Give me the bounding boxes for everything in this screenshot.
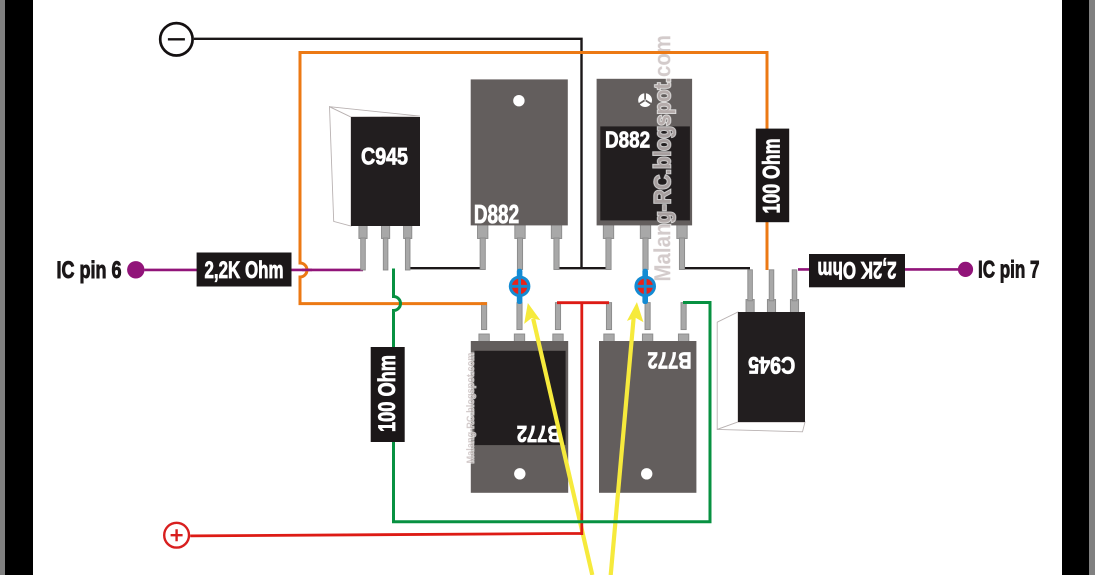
svg-text:C945: C945 (748, 351, 795, 377)
svg-text:2,2K Ohm: 2,2K Ohm (205, 257, 284, 284)
svg-text:Malang-RC.blogspot.com: Malang-RC.blogspot.com (649, 35, 675, 282)
svg-text:IC pin 7: IC pin 7 (978, 256, 1040, 283)
svg-text:IC pin 6: IC pin 6 (57, 257, 122, 284)
svg-text:Malang-RC.blogspot.com: Malang-RC.blogspot.com (465, 353, 477, 464)
svg-text:B772: B772 (648, 347, 692, 373)
svg-text:D882: D882 (474, 201, 519, 229)
svg-text:C945: C945 (361, 144, 408, 170)
svg-text:100 Ohm: 100 Ohm (759, 139, 786, 214)
svg-text:2,2K Ohm: 2,2K Ohm (818, 256, 897, 283)
svg-text:D882: D882 (605, 127, 650, 153)
svg-text:B772: B772 (517, 421, 561, 447)
svg-text:100 Ohm: 100 Ohm (374, 355, 401, 432)
